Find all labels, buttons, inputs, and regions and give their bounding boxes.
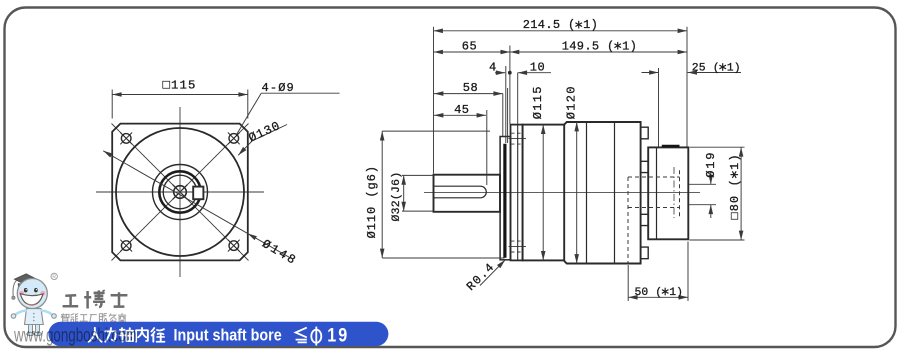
svg-text:45: 45	[454, 103, 469, 117]
svg-text:R: R	[52, 275, 56, 281]
svg-text:Ø110 (g6): Ø110 (g6)	[365, 165, 379, 238]
svg-text:Ø32(J6): Ø32(J6)	[391, 172, 403, 222]
svg-text:1): 1)	[622, 39, 637, 53]
svg-text:Ø19: Ø19	[704, 151, 718, 178]
svg-text:1): 1)	[669, 287, 683, 299]
svg-text:Ø115: Ø115	[531, 85, 545, 119]
svg-text:1): 1)	[728, 153, 742, 170]
svg-text:25 (: 25 (	[692, 62, 720, 74]
svg-text:1): 1)	[727, 62, 741, 74]
svg-text:Ø120: Ø120	[565, 85, 579, 119]
svg-text:10: 10	[530, 60, 545, 74]
svg-text:19: 19	[327, 324, 349, 346]
svg-text:□115: □115	[163, 79, 197, 93]
svg-text:1): 1)	[583, 18, 598, 32]
svg-text:4: 4	[489, 60, 497, 74]
svg-text:214.5 (: 214.5 (	[523, 18, 576, 32]
svg-text:Input shaft bore: Input shaft bore	[174, 327, 282, 345]
svg-text:□80 (: □80 (	[728, 178, 742, 219]
svg-text:65: 65	[462, 39, 477, 53]
svg-text:www.gongboshi.com: www.gongboshi.com	[13, 324, 137, 346]
svg-text:149.5 (: 149.5 (	[562, 39, 615, 53]
svg-text:58: 58	[463, 81, 478, 95]
svg-text:50 (: 50 (	[635, 287, 663, 299]
